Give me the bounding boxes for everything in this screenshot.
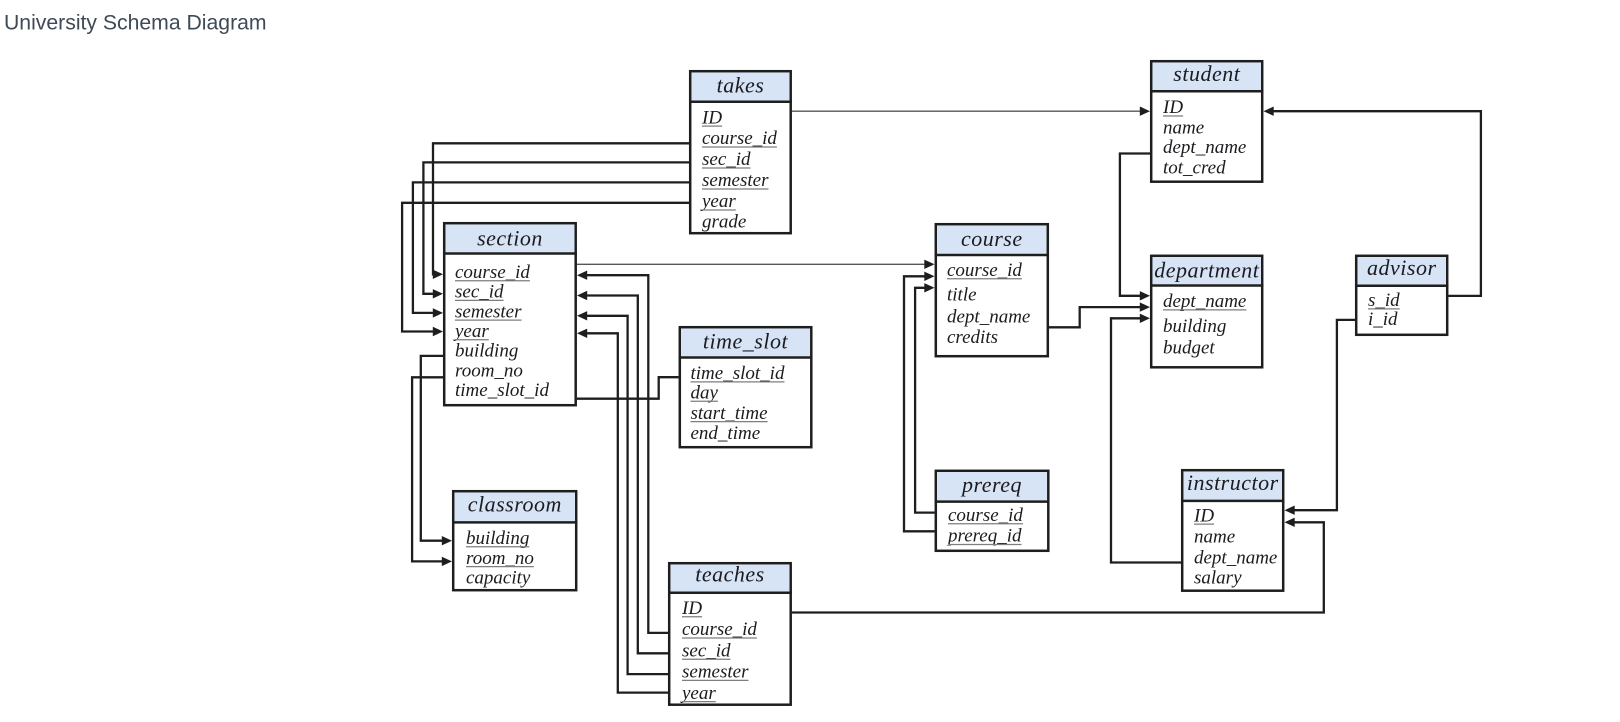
wire teaches.ID -> instructor.ID xyxy=(792,522,1324,612)
svg-text:section: section xyxy=(477,226,543,251)
svg-text:dept_name: dept_name xyxy=(1163,137,1246,158)
svg-text:grade: grade xyxy=(702,212,746,233)
wire takes.semester -> section.semester xyxy=(413,182,689,313)
svg-text:sec_id: sec_id xyxy=(455,282,504,303)
table time_slot xyxy=(679,327,813,447)
svg-text:teaches: teaches xyxy=(695,562,764,587)
table prereq xyxy=(935,471,1050,551)
svg-text:course_id: course_id xyxy=(947,260,1022,281)
table instructor xyxy=(1181,470,1285,591)
wire takes.year -> section.year xyxy=(402,203,689,332)
svg-text:instructor: instructor xyxy=(1187,470,1279,495)
svg-text:ID: ID xyxy=(681,598,702,619)
svg-text:year: year xyxy=(453,321,489,342)
svg-text:semester: semester xyxy=(455,301,522,322)
svg-text:building: building xyxy=(455,341,518,362)
svg-text:building: building xyxy=(466,528,529,549)
svg-text:salary: salary xyxy=(1194,568,1242,589)
svg-text:dept_name: dept_name xyxy=(947,306,1030,327)
svg-text:semester: semester xyxy=(682,662,749,683)
svg-text:end_time: end_time xyxy=(691,423,761,444)
svg-text:credits: credits xyxy=(947,327,998,348)
svg-text:year: year xyxy=(680,683,716,704)
wire teaches.semester -> section.semester xyxy=(585,316,668,674)
svg-text:dept_name: dept_name xyxy=(1163,291,1246,312)
wire takes.course_id -> section.course_id xyxy=(433,143,689,274)
svg-text:room_no: room_no xyxy=(455,360,523,381)
svg-text:prereq: prereq xyxy=(960,472,1022,497)
wire takes.ID -> student.ID xyxy=(792,110,1142,112)
svg-text:course_id: course_id xyxy=(682,619,757,640)
wire course.dept_name -> department.dept_name xyxy=(1049,307,1142,327)
svg-text:year: year xyxy=(700,191,736,212)
wire section.room_no -> classroom.room_no xyxy=(412,377,444,561)
wire teaches.year -> section.year xyxy=(585,333,668,692)
svg-text:i_id: i_id xyxy=(1368,309,1398,330)
svg-text:time_slot_id: time_slot_id xyxy=(691,363,785,384)
wire teaches.course_id -> section.course_id xyxy=(585,275,668,633)
svg-text:semester: semester xyxy=(702,170,769,191)
svg-text:s_id: s_id xyxy=(1368,290,1400,311)
table classroom xyxy=(452,491,578,590)
wire student.dept_name -> department.dept_name xyxy=(1120,154,1150,296)
wire section.course_id -> course.course_id xyxy=(577,263,927,265)
svg-text:classroom: classroom xyxy=(468,491,562,516)
svg-text:advisor: advisor xyxy=(1367,255,1437,280)
svg-text:capacity: capacity xyxy=(466,568,531,589)
table student xyxy=(1150,61,1264,182)
svg-text:course_id: course_id xyxy=(702,128,777,149)
svg-text:student: student xyxy=(1173,61,1240,86)
wire advisor.i_id -> instructor.ID xyxy=(1292,320,1355,510)
wire advisor.s_id -> student.ID xyxy=(1271,111,1481,296)
svg-text:takes: takes xyxy=(717,72,765,97)
svg-text:department: department xyxy=(1154,258,1260,283)
svg-text:course_id: course_id xyxy=(948,505,1023,526)
svg-text:time_slot: time_slot xyxy=(703,329,789,354)
svg-text:sec_id: sec_id xyxy=(702,149,751,170)
svg-text:ID: ID xyxy=(1193,505,1214,526)
svg-text:course: course xyxy=(961,226,1023,251)
wire takes.sec_id -> section.sec_id xyxy=(423,162,689,293)
svg-text:dept_name: dept_name xyxy=(1194,548,1277,569)
svg-text:ID: ID xyxy=(1162,97,1183,118)
table takes xyxy=(689,71,792,233)
svg-text:prereq_id: prereq_id xyxy=(946,526,1022,547)
svg-text:ID: ID xyxy=(701,107,722,128)
svg-text:name: name xyxy=(1194,526,1235,547)
svg-text:title: title xyxy=(947,284,977,305)
svg-text:course_id: course_id xyxy=(455,262,530,283)
wire teaches.sec_id -> section.sec_id xyxy=(585,296,668,654)
table department xyxy=(1150,256,1264,367)
svg-text:time_slot_id: time_slot_id xyxy=(455,380,549,401)
wire section.time_slot_id -> time_slot xyxy=(577,377,679,399)
table section xyxy=(443,223,577,405)
svg-text:sec_id: sec_id xyxy=(682,640,731,661)
wire instructor.dept_name -> department.dept_name xyxy=(1111,318,1181,562)
svg-text:start_time: start_time xyxy=(691,403,768,424)
svg-text:University Schema Diagram: University Schema Diagram xyxy=(4,12,267,35)
svg-text:building: building xyxy=(1163,316,1226,337)
table advisor xyxy=(1355,255,1449,335)
table teaches xyxy=(668,562,792,705)
svg-text:day: day xyxy=(691,383,719,404)
wire section.building -> classroom.building xyxy=(421,356,445,541)
svg-text:tot_cred: tot_cred xyxy=(1163,157,1226,178)
svg-text:room_no: room_no xyxy=(466,548,534,569)
svg-text:budget: budget xyxy=(1163,338,1215,359)
wire prereq.prereq_id -> course.course_id xyxy=(904,276,935,531)
table course xyxy=(935,224,1050,356)
svg-text:name: name xyxy=(1163,118,1204,139)
wire prereq.course_id -> course.course_id xyxy=(915,288,934,513)
